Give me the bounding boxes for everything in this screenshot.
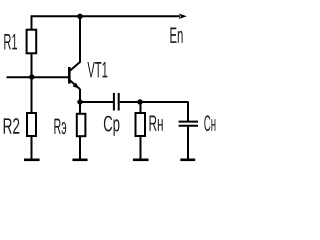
resistor R1 bbox=[27, 30, 37, 54]
label Cp bbox=[104, 116, 120, 136]
node: collector junction dot on supply rail bbox=[77, 14, 82, 19]
resistor Rэ bbox=[77, 114, 86, 136]
transistor VT1 (NPN) bbox=[69, 62, 80, 89]
wire: top supply rail bbox=[32, 15, 181, 17]
ground: Cн ground bar bbox=[180, 159, 195, 162]
node: emitter output junction dot bbox=[77, 99, 82, 104]
emitter arrowhead bbox=[73, 83, 80, 89]
collector diagonal bbox=[69, 62, 80, 71]
node: load junction dot bbox=[137, 99, 142, 104]
wire: Rн top lead bbox=[140, 102, 142, 113]
ground: Rэ ground bar bbox=[72, 159, 87, 162]
emitter diagonal bbox=[69, 80, 80, 90]
wire: capacitor to load bbox=[120, 101, 188, 103]
wire: R2 bottom lead bbox=[31, 137, 33, 159]
capacitor Cн (load) bbox=[179, 122, 198, 126]
wire: emitter lead down bbox=[79, 89, 81, 114]
wire: Cн bottom lead bbox=[187, 127, 189, 159]
wire: R1 top lead bbox=[31, 15, 33, 29]
wire: Cн top lead bbox=[187, 101, 189, 121]
wire: Rн bottom lead bbox=[140, 137, 142, 159]
label R1 bbox=[4, 34, 17, 49]
wire: Rэ bottom lead bbox=[79, 136, 81, 159]
arrow En supply terminal bbox=[179, 14, 187, 20]
wire: R1 bottom lead bbox=[31, 54, 33, 78]
capacitor Cp (coupling) bbox=[114, 93, 119, 111]
ground: R2 ground bar bbox=[24, 159, 40, 162]
label Rн bbox=[150, 116, 163, 131]
base bar bbox=[68, 67, 71, 84]
wire: input base rail bbox=[7, 76, 70, 78]
label En bbox=[170, 28, 182, 43]
wire: R2 top lead bbox=[31, 77, 33, 113]
resistor R2 bbox=[27, 113, 36, 136]
resistor Rн bbox=[136, 113, 146, 136]
wire: output to coupling capacitor bbox=[80, 101, 113, 103]
label Rэ bbox=[54, 119, 66, 135]
label Cн bbox=[204, 115, 215, 131]
wire: collector lead bbox=[79, 16, 81, 62]
label VT1 bbox=[87, 62, 107, 77]
node: divider junction dot bbox=[29, 74, 34, 79]
label R2 bbox=[4, 118, 20, 134]
ground: Rн ground bar bbox=[133, 159, 149, 162]
